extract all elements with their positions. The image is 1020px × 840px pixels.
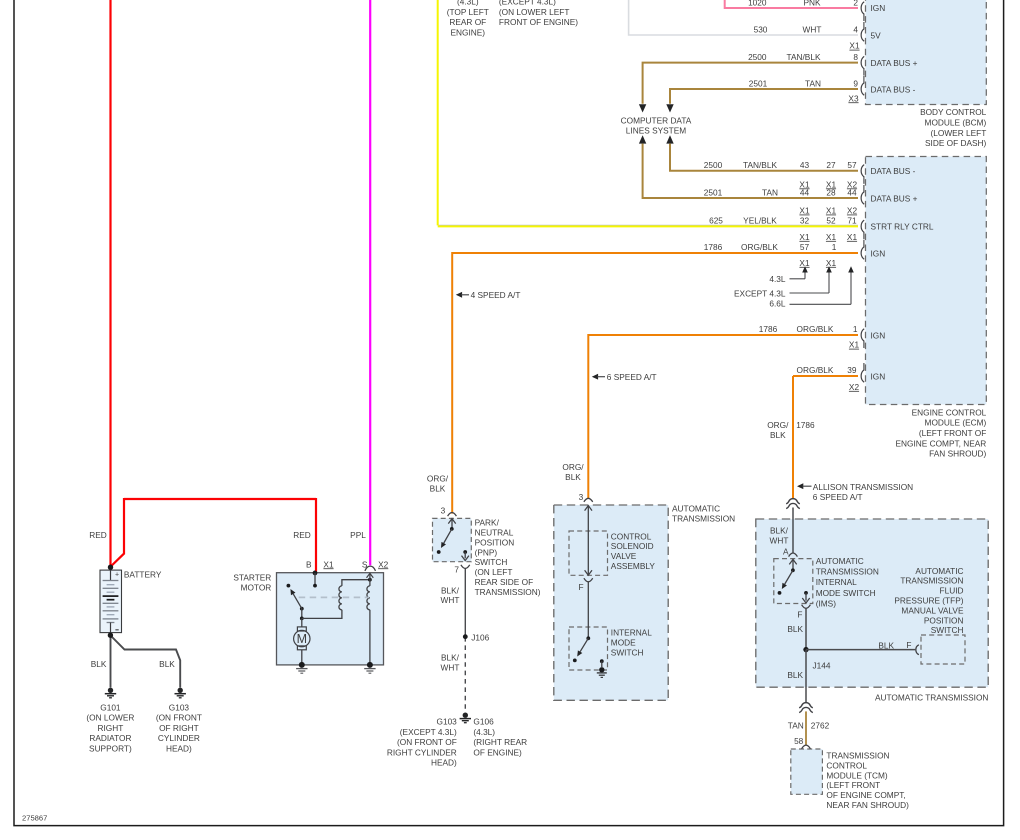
svg-text:3: 3: [579, 492, 584, 502]
svg-text:BLK/: BLK/: [441, 585, 460, 595]
svg-text:F: F: [797, 609, 802, 619]
svg-text:1020: 1020: [748, 0, 767, 7]
svg-text:MODE: MODE: [611, 637, 636, 647]
svg-text:6 SPEED A/T: 6 SPEED A/T: [813, 492, 863, 502]
svg-text:BLK: BLK: [91, 659, 107, 669]
svg-text:ORG/BLK: ORG/BLK: [797, 324, 834, 334]
svg-text:2501: 2501: [749, 78, 768, 88]
svg-text:MODULE (ECM): MODULE (ECM): [925, 418, 987, 428]
svg-text:2500: 2500: [748, 52, 767, 62]
svg-text:TAN: TAN: [805, 78, 821, 88]
svg-text:ENGINE COMPT, NEAR: ENGINE COMPT, NEAR: [895, 438, 986, 448]
svg-text:X2: X2: [378, 559, 389, 569]
svg-text:(LOWER LEFT: (LOWER LEFT: [931, 128, 987, 138]
svg-text:1786: 1786: [704, 242, 723, 252]
svg-text:(RIGHT REAR: (RIGHT REAR: [473, 737, 527, 747]
svg-text:POSITION: POSITION: [924, 615, 964, 625]
svg-text:DATA BUS -: DATA BUS -: [871, 166, 916, 176]
svg-text:ORG/: ORG/: [562, 462, 584, 472]
svg-text:IGN: IGN: [871, 3, 886, 13]
svg-text:32: 32: [800, 216, 810, 226]
svg-text:TAN/BLK: TAN/BLK: [743, 160, 777, 170]
svg-text:IGN: IGN: [871, 371, 886, 381]
svg-text:ASSEMBLY: ASSEMBLY: [611, 561, 656, 571]
svg-text:CONTROL: CONTROL: [611, 531, 652, 541]
svg-text:FAN SHROUD): FAN SHROUD): [929, 449, 986, 459]
svg-text:NEUTRAL: NEUTRAL: [475, 528, 514, 538]
svg-text:1: 1: [832, 242, 837, 252]
svg-text:BLK/: BLK/: [441, 652, 460, 662]
svg-text:WHT: WHT: [770, 536, 789, 546]
svg-text:MANUAL VALVE: MANUAL VALVE: [901, 605, 964, 615]
svg-text:J106: J106: [471, 632, 489, 642]
svg-text:SWITCH: SWITCH: [611, 647, 644, 657]
svg-text:MODULE (BCM): MODULE (BCM): [925, 118, 987, 128]
svg-text:WHT: WHT: [441, 595, 460, 605]
svg-text:6.6L: 6.6L: [769, 299, 786, 309]
svg-text:4: 4: [853, 24, 858, 34]
svg-text:PNK: PNK: [803, 0, 821, 7]
svg-text:44: 44: [847, 187, 857, 197]
svg-text:RIGHT: RIGHT: [97, 723, 123, 733]
svg-text:1786: 1786: [796, 420, 815, 430]
svg-text:X1: X1: [849, 340, 860, 350]
svg-text:B: B: [306, 559, 312, 569]
svg-text:X1: X1: [799, 206, 810, 216]
svg-text:1: 1: [853, 324, 858, 334]
svg-text:2500: 2500: [704, 160, 723, 170]
svg-text:FLUID: FLUID: [940, 586, 964, 596]
svg-text:ALLISON TRANSMISSION: ALLISON TRANSMISSION: [813, 482, 913, 492]
svg-text:ENGINE CONTROL: ENGINE CONTROL: [912, 407, 987, 417]
svg-text:3: 3: [441, 505, 446, 515]
svg-text:52: 52: [826, 216, 836, 226]
svg-text:IGN: IGN: [871, 330, 886, 340]
svg-text:4 SPEED A/T: 4 SPEED A/T: [471, 290, 521, 300]
svg-text:BLK: BLK: [878, 641, 894, 651]
svg-text:G103: G103: [169, 702, 190, 712]
svg-text:(TOP LEFT: (TOP LEFT: [447, 7, 489, 17]
svg-text:X1: X1: [799, 258, 810, 268]
svg-text:X1: X1: [826, 232, 837, 242]
svg-text:(ON FRONT OF: (ON FRONT OF: [397, 737, 457, 747]
svg-text:(ON LOWER LEFT: (ON LOWER LEFT: [499, 7, 570, 17]
svg-text:SOLENOID: SOLENOID: [611, 541, 654, 551]
svg-text:REAR OF: REAR OF: [449, 17, 486, 27]
svg-text:(ON LEFT: (ON LEFT: [475, 567, 513, 577]
svg-text:ORG/: ORG/: [427, 473, 449, 483]
svg-text:NEAR FAN SHROUD): NEAR FAN SHROUD): [826, 800, 909, 810]
svg-text:X1: X1: [849, 41, 860, 51]
svg-text:REAR SIDE OF: REAR SIDE OF: [475, 577, 534, 587]
svg-text:57: 57: [800, 242, 810, 252]
svg-text:TRANSMISSION): TRANSMISSION): [475, 587, 541, 597]
svg-text:(LEFT FRONT OF: (LEFT FRONT OF: [919, 428, 986, 438]
svg-text:(EXCEPT 4.3L): (EXCEPT 4.3L): [400, 727, 457, 737]
svg-text:MODULE (TCM): MODULE (TCM): [826, 770, 888, 780]
svg-text:71: 71: [847, 216, 857, 226]
svg-text:WHT: WHT: [803, 24, 822, 34]
svg-text:(ON LOWER: (ON LOWER: [86, 713, 134, 723]
svg-text:G103: G103: [437, 717, 458, 727]
svg-text:58: 58: [794, 736, 804, 746]
svg-text:44: 44: [800, 187, 810, 197]
svg-text:X1: X1: [323, 559, 334, 569]
svg-text:275867: 275867: [22, 814, 47, 823]
svg-text:BLK: BLK: [159, 659, 175, 669]
svg-text:INTERNAL: INTERNAL: [816, 577, 857, 587]
svg-text:WHT: WHT: [441, 662, 460, 672]
svg-text:(LEFT FRONT: (LEFT FRONT: [826, 780, 880, 790]
svg-text:9: 9: [853, 78, 858, 88]
svg-text:J144: J144: [813, 660, 831, 670]
svg-text:625: 625: [709, 216, 723, 226]
svg-text:(4.3L): (4.3L): [473, 727, 495, 737]
svg-text:BLK: BLK: [787, 624, 803, 634]
svg-text:TAN: TAN: [762, 187, 778, 197]
svg-text:43: 43: [800, 160, 810, 170]
svg-text:PPL: PPL: [350, 530, 366, 540]
svg-text:INTERNAL: INTERNAL: [611, 628, 652, 638]
svg-text:POSITION: POSITION: [475, 537, 515, 547]
svg-text:VALVE: VALVE: [611, 551, 637, 561]
svg-text:PARK/: PARK/: [475, 518, 500, 528]
svg-text:X1: X1: [847, 232, 858, 242]
svg-text:MOTOR: MOTOR: [241, 583, 272, 593]
svg-text:FRONT OF ENGINE): FRONT OF ENGINE): [499, 17, 578, 27]
svg-text:ORG/: ORG/: [767, 420, 789, 430]
svg-text:BLK/: BLK/: [770, 526, 789, 536]
svg-text:G101: G101: [100, 702, 121, 712]
svg-text:SWITCH: SWITCH: [475, 557, 508, 567]
svg-text:X1: X1: [826, 206, 837, 216]
svg-text:PRESSURE (TFP): PRESSURE (TFP): [894, 596, 963, 606]
svg-text:TAN/BLK: TAN/BLK: [787, 52, 821, 62]
svg-text:1786: 1786: [759, 324, 778, 334]
svg-text:7: 7: [454, 564, 459, 574]
svg-text:28: 28: [826, 187, 836, 197]
svg-text:+: +: [115, 572, 119, 579]
svg-text:(EXCEPT 4.3L): (EXCEPT 4.3L): [499, 0, 556, 7]
svg-text:AUTOMATIC: AUTOMATIC: [816, 556, 864, 566]
svg-text:2501: 2501: [704, 187, 723, 197]
svg-text:ORG/BLK: ORG/BLK: [741, 242, 778, 252]
svg-text:HEAD): HEAD): [431, 758, 457, 768]
svg-text:X3: X3: [848, 93, 859, 103]
svg-text:STARTER: STARTER: [233, 572, 271, 582]
svg-text:STRT RLY CTRL: STRT RLY CTRL: [871, 222, 934, 232]
svg-text:TRANSMISSION: TRANSMISSION: [826, 751, 889, 761]
svg-text:X2: X2: [847, 206, 858, 216]
svg-text:(ON FRONT: (ON FRONT: [156, 713, 202, 723]
svg-text:IGN: IGN: [871, 248, 886, 258]
svg-text:RIGHT CYLINDER: RIGHT CYLINDER: [387, 747, 457, 757]
svg-text:530: 530: [754, 24, 768, 34]
svg-text:BLK: BLK: [430, 483, 446, 493]
svg-text:BLK: BLK: [770, 430, 786, 440]
svg-text:COMPUTER DATA: COMPUTER DATA: [621, 115, 692, 125]
svg-text:G106: G106: [473, 717, 494, 727]
svg-text:SWITCH: SWITCH: [931, 625, 964, 635]
svg-text:AUTOMATIC: AUTOMATIC: [672, 503, 720, 513]
svg-text:BLK: BLK: [565, 472, 581, 482]
svg-text:YEL/BLK: YEL/BLK: [743, 216, 777, 226]
svg-text:RED: RED: [293, 530, 311, 540]
svg-text:57: 57: [847, 160, 857, 170]
svg-text:LINES SYSTEM: LINES SYSTEM: [626, 126, 686, 136]
svg-text:BODY CONTROL: BODY CONTROL: [920, 107, 987, 117]
svg-text:5V: 5V: [871, 30, 882, 40]
svg-text:2762: 2762: [811, 720, 830, 730]
svg-text:BLK: BLK: [787, 670, 803, 680]
svg-text:8: 8: [853, 52, 858, 62]
svg-text:39: 39: [847, 365, 857, 375]
svg-text:6 SPEED A/T: 6 SPEED A/T: [607, 372, 657, 382]
svg-text:S: S: [362, 559, 368, 569]
svg-text:TAN: TAN: [788, 720, 804, 730]
svg-text:OF RIGHT: OF RIGHT: [159, 723, 199, 733]
svg-text:MODE SWITCH: MODE SWITCH: [816, 588, 876, 598]
svg-text:SUPPORT): SUPPORT): [89, 744, 132, 754]
svg-text:BATTERY: BATTERY: [124, 569, 162, 579]
svg-text:X2: X2: [849, 382, 860, 392]
svg-text:OF ENGINE): OF ENGINE): [473, 747, 522, 757]
svg-text:RED: RED: [89, 530, 107, 540]
svg-text:X1: X1: [826, 258, 837, 268]
svg-text:ENGINE): ENGINE): [451, 28, 486, 38]
svg-text:X1: X1: [799, 232, 810, 242]
svg-text:A: A: [783, 547, 789, 557]
svg-text:TRANSMISSION: TRANSMISSION: [816, 567, 879, 577]
svg-text:CONTROL: CONTROL: [826, 760, 867, 770]
svg-text:TRANSMISSION: TRANSMISSION: [672, 514, 735, 524]
svg-text:(PNP): (PNP): [475, 547, 498, 557]
svg-text:TRANSMISSION: TRANSMISSION: [900, 576, 963, 586]
svg-text:EXCEPT 4.3L: EXCEPT 4.3L: [734, 288, 786, 298]
svg-text:M: M: [297, 632, 307, 646]
svg-text:AUTOMATIC: AUTOMATIC: [915, 566, 963, 576]
svg-text:SIDE OF DASH): SIDE OF DASH): [925, 138, 987, 148]
svg-text:(4.3L): (4.3L): [457, 0, 479, 7]
svg-text:DATA BUS -: DATA BUS -: [871, 84, 916, 94]
svg-text:OF ENGINE COMPT,: OF ENGINE COMPT,: [826, 790, 905, 800]
svg-text:(IMS): (IMS): [816, 598, 837, 608]
svg-text:HEAD): HEAD): [166, 744, 192, 754]
svg-text:DATA BUS +: DATA BUS +: [871, 58, 918, 68]
svg-text:ORG/BLK: ORG/BLK: [797, 365, 834, 375]
svg-text:RADIATOR: RADIATOR: [89, 733, 131, 743]
svg-text:CYLINDER: CYLINDER: [158, 733, 200, 743]
svg-text:4.3L: 4.3L: [769, 274, 786, 284]
svg-text:DATA BUS +: DATA BUS +: [871, 193, 918, 203]
svg-text:AUTOMATIC TRANSMISSION: AUTOMATIC TRANSMISSION: [875, 693, 988, 703]
svg-text:2: 2: [853, 0, 858, 7]
svg-text:F: F: [579, 582, 584, 592]
svg-text:27: 27: [826, 160, 836, 170]
svg-text:F: F: [906, 640, 911, 650]
